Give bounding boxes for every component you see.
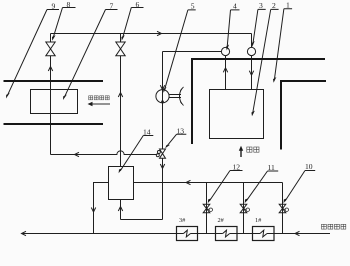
feedwater heater 1# <box>253 227 275 241</box>
svg-text:11: 11 <box>268 163 276 172</box>
label 8 <box>52 0 76 41</box>
svg-text:1: 1 <box>286 1 290 10</box>
pump drive turbine arc <box>180 89 182 104</box>
flue duct inner wall <box>281 81 326 150</box>
air duct wall upper (9) <box>4 80 104 82</box>
svg-text:12: 12 <box>233 162 241 171</box>
flow arrow up at (120.5,92.5) <box>118 93 122 98</box>
svg-text:5: 5 <box>191 2 195 11</box>
flow arrow down below valve 13 <box>160 164 164 169</box>
flow arrow up at (50.5,66.5) <box>48 67 52 72</box>
text 低温空气 (cold air) <box>89 96 110 100</box>
flow arrow up at (225.5,67.8) <box>223 68 227 73</box>
wire: horizontal y=51.5 from pump drop corner to circle 4 <box>163 51 222 53</box>
flow arrow left at feedwater outlet <box>22 231 27 235</box>
flow arrow down at (93.5,212) <box>91 208 95 213</box>
wire: tap branch 10 from header corner <box>282 183 284 234</box>
economizer box 2 <box>210 90 264 139</box>
valve 11 <box>240 204 249 213</box>
label 10 <box>284 162 316 203</box>
mixer box 14 <box>109 167 134 200</box>
label 6 <box>121 0 143 41</box>
text 低压给水 (LP feedwater) <box>322 224 346 229</box>
label 13 <box>165 127 186 149</box>
wire: top header y=33.5 <box>51 33 252 35</box>
label 3 <box>251 1 265 47</box>
cold air flow arrow <box>88 102 111 106</box>
wire: feedwater line y=233.5 <box>22 233 331 235</box>
svg-text:1#: 1# <box>255 217 262 224</box>
flow arrow down inside pump bottom <box>161 101 164 105</box>
label 4 <box>226 2 240 51</box>
wire: circle-3 down into economizer box top <box>251 56 253 90</box>
valve 10 <box>279 204 288 213</box>
three-way valve 13 <box>156 149 165 158</box>
feedwater heater 3# <box>177 227 198 241</box>
flow arrow down above pump <box>160 85 164 90</box>
flow arrow right on top header <box>157 31 162 35</box>
wire: drop from header to flow-glass 3 <box>251 34 253 48</box>
flow arrow up into box14 bottom <box>118 207 122 212</box>
svg-text:3: 3 <box>259 1 263 10</box>
wire: tap branch 11 <box>243 183 245 234</box>
label 1 <box>273 1 292 83</box>
svg-text:2: 2 <box>272 1 276 10</box>
flow arrow left on feedwater line at x=295 <box>295 231 300 235</box>
wire: stub down to valve 6 <box>120 34 122 43</box>
wire: box14 left port down to feedwater line <box>94 183 109 234</box>
flow arrow left on tap header <box>186 180 191 184</box>
wire: circle-4 down into economizer box top <box>225 56 227 90</box>
wire: horizontal y=154.5 with hop over x=120.5, to valve 13 <box>51 151 158 155</box>
air heater box 7 <box>31 90 78 114</box>
svg-text:7: 7 <box>110 1 114 10</box>
wire: loop up into box14 bottom <box>120 200 122 220</box>
label 12 <box>208 162 243 203</box>
label 2 <box>251 1 278 116</box>
wire: stub down to valve 8 <box>50 34 52 43</box>
wire: box14 right port to tap header <box>134 182 283 184</box>
flue gas flow arrow <box>239 146 243 157</box>
flow arrow down at (251.5,75) <box>249 71 253 76</box>
flow glass 4 (circle) <box>221 47 229 55</box>
pump drive shaft (double line) <box>169 95 181 98</box>
label 14 <box>119 128 154 174</box>
flue duct outer wall (1) <box>192 59 325 144</box>
wire: valve13 down to mixer loop <box>162 158 164 219</box>
label 5 <box>163 2 196 93</box>
svg-text:4: 4 <box>233 2 237 11</box>
svg-text:10: 10 <box>305 162 313 171</box>
text 烟气 (flue gas) <box>247 147 259 152</box>
svg-text:9: 9 <box>52 1 56 10</box>
flow glass 3 (circle) <box>247 47 255 55</box>
wire: tap branch 12 <box>206 183 208 234</box>
wire: vertical from corner through pump to valve 13 <box>162 52 164 150</box>
wire: valve6 down to box14 top <box>120 56 122 167</box>
label 7 <box>63 1 118 100</box>
svg-text:2#: 2# <box>218 217 225 224</box>
valve 12 <box>203 204 212 213</box>
label 9 <box>6 1 59 98</box>
air duct wall lower <box>4 123 104 125</box>
pump 5 (circle) <box>156 90 169 103</box>
wire: valve8 down through air duct to corner <box>50 56 52 155</box>
valve 6 <box>116 42 125 56</box>
label 11 <box>245 163 279 204</box>
valve 8 <box>46 42 55 56</box>
wire: loop bottom horizontal <box>121 219 163 221</box>
feedwater heater 2# <box>216 227 238 241</box>
svg-text:3#: 3# <box>179 217 186 224</box>
flow arrow left on y=154.5 <box>75 152 80 156</box>
